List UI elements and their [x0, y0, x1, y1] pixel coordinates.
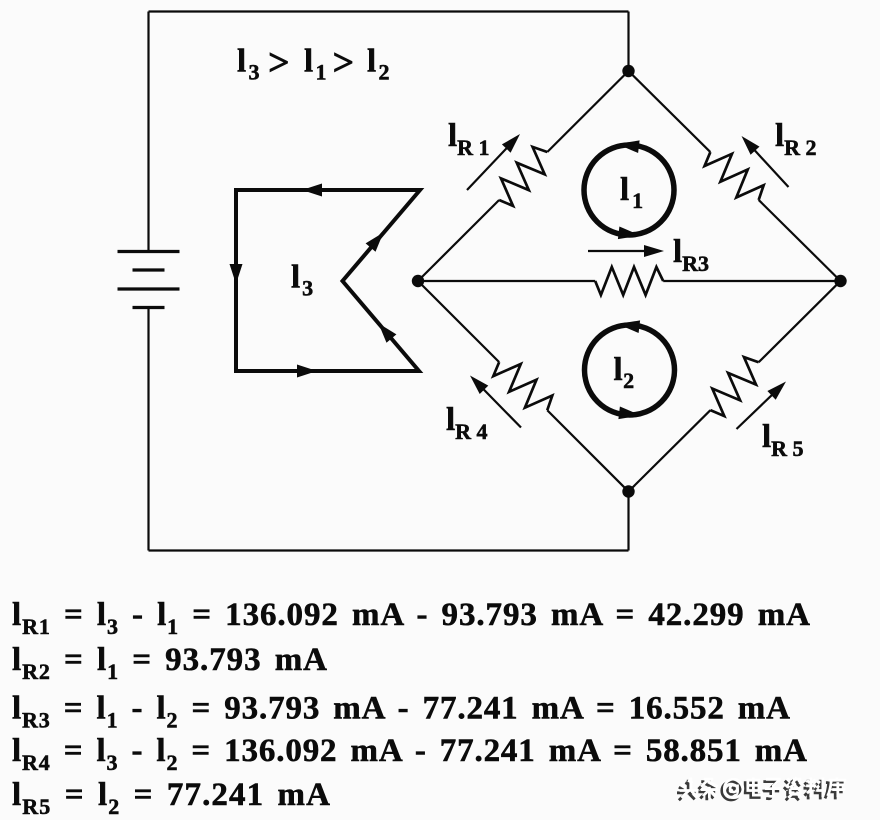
current arrow IR2	[751, 146, 789, 187]
svg-text:l3>l1>l2: l3>l1>l2	[237, 42, 390, 85]
node: left junction	[412, 275, 424, 287]
wire: right vertical from bottom node	[627, 492, 629, 551]
svg-text:lR3: lR3	[673, 234, 709, 276]
svg-text:l1: l1	[620, 172, 643, 213]
current arrow IR5	[737, 391, 776, 429]
loop I3 arrow: bottom edge (right)	[297, 365, 317, 378]
svg-text:lR 1: lR 1	[448, 118, 490, 160]
loop I1 arrow bottom (right)	[618, 227, 641, 240]
resistor R1	[408, 61, 638, 291]
svg-text:lR 4: lR 4	[446, 402, 488, 444]
node: bottom junction	[622, 485, 634, 497]
svg-text:lR2 = l1 = 93.793 mA: lR2 = l1 = 93.793 mA	[12, 642, 327, 684]
loop I2 arrow top (left)	[618, 320, 641, 333]
watermark 头条 @电子资料库	[677, 777, 846, 800]
mesh loop I2 circle	[585, 325, 675, 415]
wire: left side lower (battery bottom lead)	[147, 308, 149, 551]
loop I3 arrow: upper chevron leg (up-right)	[366, 232, 384, 251]
loop I1 arrow top (left)	[617, 140, 640, 153]
loop I3 arrow: left edge (down)	[230, 264, 243, 284]
node: top junction	[622, 65, 634, 77]
svg-text:lR4 = l3 - l2 = 136.092 mA - 7: lR4 = l3 - l2 = 136.092 mA - 77.241 mA =…	[12, 733, 807, 775]
svg-text:lR 5: lR 5	[762, 419, 804, 461]
node: right junction	[834, 275, 846, 287]
current arrow IR1	[467, 144, 510, 190]
mesh loop I1 circle	[584, 145, 674, 235]
svg-text:lR 2: lR 2	[775, 118, 817, 160]
wire: top from battery to bridge top	[149, 10, 629, 12]
mesh loop I3 outline	[236, 190, 420, 371]
svg-text:lR1 = l3 - l1 = 136.092 mA - 9: lR1 = l3 - l1 = 136.092 mA - 93.793 mA =…	[12, 597, 810, 639]
svg-text:l2: l2	[614, 352, 635, 393]
resistor R3	[418, 267, 840, 295]
svg-text:lR5 = l2 = 77.241 mA: lR5 = l2 = 77.241 mA	[12, 777, 330, 819]
wire: right vertical into top node	[627, 12, 629, 72]
svg-text:l3: l3	[291, 260, 313, 301]
wire: bottom from battery to bridge bottom	[149, 549, 629, 551]
loop I3 arrow: lower chevron leg (up-left)	[379, 323, 397, 342]
loop I2 arrow bottom (right)	[618, 407, 641, 420]
battery B1	[118, 252, 180, 308]
resistor R2	[619, 61, 851, 291]
resistor R4	[408, 271, 638, 501]
resistor R5	[619, 271, 851, 501]
svg-text:lR3 = l1 - l2 = 93.793 mA - 77: lR3 = l1 - l2 = 93.793 mA - 77.241 mA = …	[12, 691, 790, 733]
current arrow IR4	[480, 386, 521, 428]
wire: left side upper (battery top lead)	[147, 12, 149, 252]
current arrow IR3	[588, 250, 650, 252]
loop I3 arrow: top edge (left)	[302, 184, 322, 197]
